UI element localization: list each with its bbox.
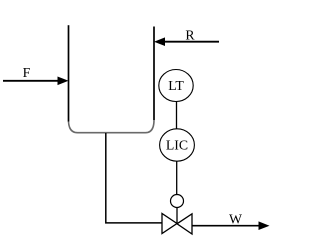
instrument LIC — [160, 129, 195, 161]
tank T1 right wall — [153, 27, 155, 121]
svg-text:R: R — [185, 28, 195, 43]
signal line LIC to valve actuator — [176, 161, 178, 194]
instrument LT — [159, 70, 193, 102]
actuator stem — [176, 208, 178, 224]
stream R arrow — [154, 37, 219, 46]
outlet pipe from tank to valve — [106, 133, 162, 223]
outlet pipe W with arrow — [192, 221, 270, 230]
svg-text:LT: LT — [168, 78, 184, 93]
signal line LT to LIC — [176, 102, 178, 130]
stream F arrow — [3, 77, 69, 86]
svg-text:W: W — [229, 212, 242, 227]
svg-text:LIC: LIC — [166, 138, 188, 153]
tank T1 rounded bottom — [69, 120, 155, 133]
control valve V1 — [162, 214, 192, 235]
svg-text:F: F — [23, 65, 31, 80]
valve actuator circle — [171, 195, 184, 208]
label W — [229, 212, 242, 227]
tank T1 left wall — [68, 25, 70, 121]
label F — [23, 65, 31, 80]
label R — [185, 28, 195, 43]
